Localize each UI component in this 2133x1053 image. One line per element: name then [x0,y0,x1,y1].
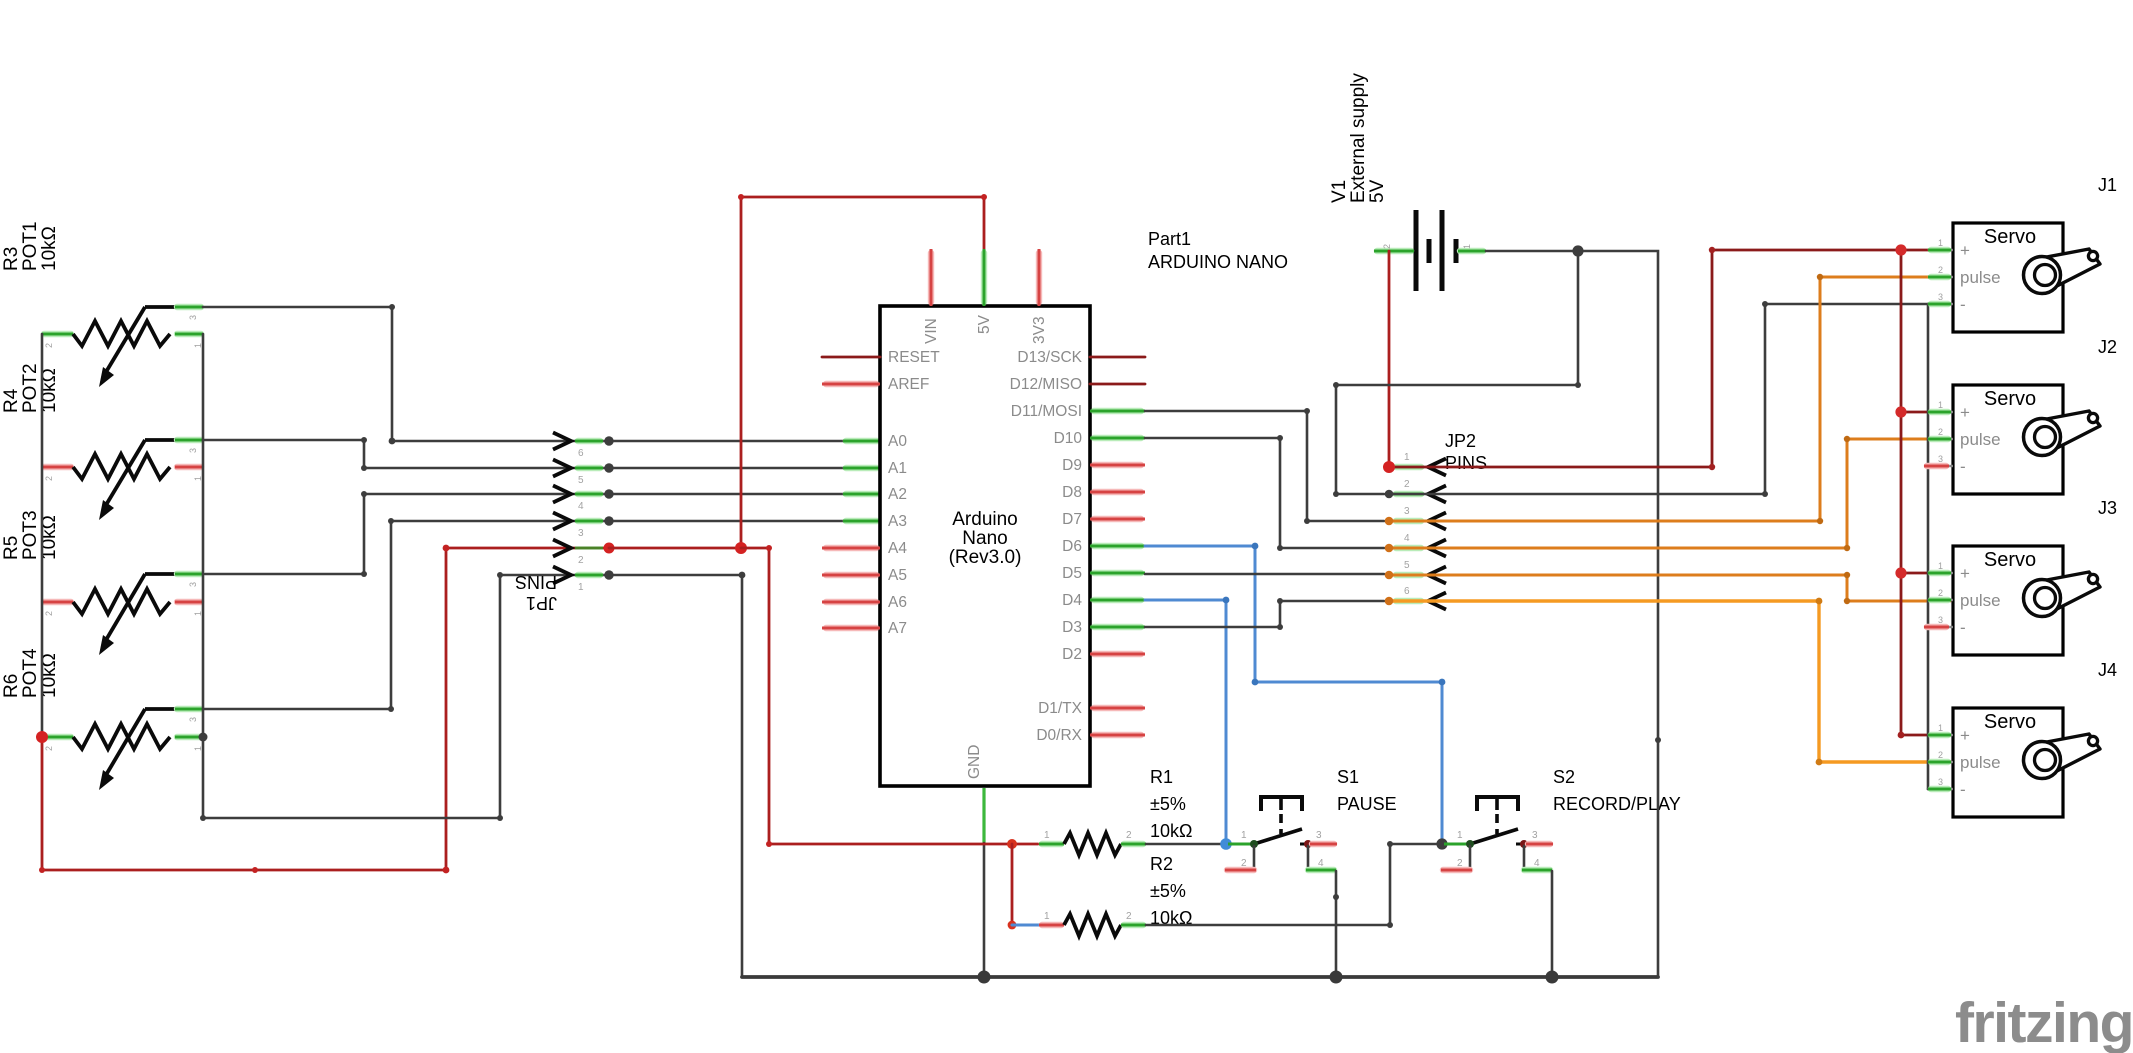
svg-text:5V: 5V [976,314,993,334]
junction servo + J1 [1895,244,1906,255]
label Part1 ARDUINO NANO [1148,229,1288,272]
svg-text:+: + [1960,564,1970,583]
label S1 PAUSE [1337,767,1397,814]
svg-text:1: 1 [1404,452,1410,463]
wire pot1 pin1 / pot4 pin1 to JP1 pin1 and ground bus [200,334,745,977]
svg-text:2: 2 [1938,750,1943,760]
Arduino pin A1 [888,460,907,477]
svg-text:PAUSE: PAUSE [1337,794,1397,814]
svg-text:R1: R1 [1150,767,1173,787]
svg-text:J2: J2 [2098,337,2117,357]
wire pot1 pin3 to JP1 pin6 (A0 net) [203,304,608,444]
junction pot4 pin2 (red dot) [36,731,48,743]
svg-text:1: 1 [1044,830,1050,841]
svg-text:D5: D5 [1062,565,1082,582]
svg-text:3: 3 [188,315,198,320]
svg-text:fritzing: fritzing [1955,991,2133,1053]
svg-text:2: 2 [1241,858,1247,869]
svg-text:2: 2 [578,555,584,566]
svg-text:J1: J1 [2098,175,2117,195]
svg-text:3: 3 [188,717,198,722]
svg-text:2: 2 [1938,427,1943,437]
Arduino pin D8 [1062,484,1145,501]
Arduino pin 3V3 [1031,249,1048,344]
junction JP2 pin1 (red) [1383,461,1395,473]
junction S2 pin4 on bus [1546,971,1559,984]
Arduino pin A5 [822,567,907,584]
svg-text:D1/TX: D1/TX [1038,700,1083,717]
junction servo + J2 [1895,406,1906,417]
svg-text:2: 2 [1126,911,1132,922]
label R5 POT3 10k [1,510,60,560]
svg-text:+: + [1960,726,1970,745]
wire dark red servo plus bus [1898,250,1950,738]
svg-text:+: + [1960,403,1970,422]
svg-text:-: - [1960,295,1966,314]
svg-text:A2: A2 [888,486,907,503]
junction at S2 pin1 [1436,838,1447,849]
svg-text:POT3: POT3 [20,510,41,560]
svg-text:2: 2 [44,476,54,481]
svg-text:S1: S1 [1337,767,1359,787]
JP2 pin 3 [1396,518,1421,524]
JP2 pin 4 [1396,545,1421,551]
svg-text:3: 3 [188,448,198,453]
wire red 5V to R1 pin1 [741,545,1038,847]
Arduino pin A2 [888,486,907,503]
potentiometer R5 (POT3) [42,574,203,655]
wire dark red JP2 pin1 to servo + bus [1393,247,1901,470]
junction red above R1 [1007,839,1017,849]
servo J4 [1928,708,2100,817]
svg-text:Part1: Part1 [1148,229,1191,249]
JP1 pin 3 [578,518,600,524]
svg-text:A5: A5 [888,567,907,584]
svg-text:D0/RX: D0/RX [1036,727,1082,744]
svg-text:J4: J4 [2098,660,2117,680]
junction GND on bus [978,971,991,984]
svg-text:-: - [1960,780,1966,799]
label R4 POT2 10k [1,363,60,413]
svg-text:D8: D8 [1062,484,1082,501]
wire R2 pin2 to S2 pin1 [1146,841,1442,928]
svg-text:1: 1 [1462,244,1472,249]
Arduino pin AREF [822,376,929,393]
wire D10 to JP2 pin4 [1145,435,1384,551]
svg-text:D12/MISO: D12/MISO [1010,376,1082,393]
svg-text:3: 3 [1316,830,1322,841]
svg-text:VIN: VIN [923,318,940,344]
Arduino pin D4 [1062,592,1145,609]
svg-text:1: 1 [578,582,584,593]
Arduino pin VIN [923,249,940,344]
wire JP1 to Arduino A-pin row y=494 [609,493,880,496]
svg-text:3: 3 [578,528,584,539]
wire negative node to JP2 pin2 [1333,251,1581,497]
svg-text:1: 1 [1938,400,1943,410]
junction battery negative [1572,245,1583,256]
label JP2 PINS [1445,431,1487,473]
svg-text:R4: R4 [1,388,22,413]
wire JP2 pin2 to servo minus bus [1393,301,1928,497]
svg-text:Servo: Servo [1984,549,2036,571]
wire D11/MOSI to JP2 pin3 [1145,408,1384,524]
svg-text:4: 4 [1318,858,1324,869]
svg-text:2: 2 [44,611,54,616]
svg-text:3: 3 [1938,777,1943,787]
svg-text:D9: D9 [1062,457,1082,474]
svg-text:1: 1 [1241,830,1247,841]
svg-text:-: - [1960,457,1966,476]
svg-text:6: 6 [1404,586,1410,597]
svg-text:ARDUINO NANO: ARDUINO NANO [1148,252,1288,272]
svg-text:-: - [1960,618,1966,637]
Arduino pin A3 [888,513,907,530]
svg-text:2: 2 [1382,244,1392,249]
resistor R2 [1039,911,1146,936]
potentiometer R4 (POT2) [42,440,203,520]
servo J3 [1924,546,2100,655]
svg-text:D6: D6 [1062,538,1082,555]
svg-text:PINS: PINS [1445,453,1487,473]
svg-text:R5: R5 [1,536,22,560]
label JP1 PINS (rotated 180) [515,572,557,613]
wire orange JP2 pin3 to servo J1 pulse [1393,274,1950,524]
svg-text:2: 2 [1404,479,1410,490]
servo J2 [1924,385,2100,494]
svg-text:pulse: pulse [1960,591,2001,610]
svg-text:5: 5 [1404,560,1410,571]
wire JP1 to Arduino A-pin row y=441 [609,440,880,443]
svg-text:JP1: JP1 [526,593,557,613]
node JP2 pin at y=521 [1385,517,1394,526]
wire blue stub to R2 pin1 [1012,924,1040,927]
JP1 pin 4 [578,491,600,497]
JP1 pin 1 [578,572,600,578]
Arduino pin 5V [976,249,993,334]
svg-text:A0: A0 [888,433,907,450]
svg-text:1: 1 [1938,561,1943,571]
svg-text:+: + [1960,241,1970,260]
potentiometer R6 (POT4) [42,709,203,790]
wire pot4 pin3 to JP1 pin3 (A3 net) [204,518,608,712]
Arduino pin D7 [1062,511,1145,528]
wire pot2 pin3 to JP1 pin5 (A1 net) [203,437,608,471]
svg-text:POT1: POT1 [20,221,41,271]
svg-text:POT4: POT4 [20,648,41,698]
Arduino pin D2 [1062,646,1145,663]
svg-text:2: 2 [1126,830,1132,841]
svg-text:1: 1 [193,343,203,348]
svg-text:D7: D7 [1062,511,1082,528]
svg-text:RECORD/PLAY: RECORD/PLAY [1553,794,1681,814]
svg-text:A7: A7 [888,620,907,637]
Arduino pin D5 [1062,565,1145,582]
svg-text:4: 4 [1534,858,1540,869]
svg-text:S2: S2 [1553,767,1575,787]
connector JP2 (PINS) [1393,452,1446,610]
label R1 values [1150,767,1192,841]
Arduino pin D11/MOSI [1011,403,1145,420]
Arduino pin D13/SCK [1017,349,1145,366]
svg-text:6: 6 [578,448,584,459]
label R6 POT4 10k [1,648,60,698]
svg-text:5: 5 [578,475,584,486]
battery V1 External supply 5V [1374,210,1486,291]
svg-text:D11/MOSI: D11/MOSI [1011,403,1082,420]
svg-text:1: 1 [193,476,203,481]
svg-text:RESET: RESET [888,349,940,366]
svg-text:D3: D3 [1062,619,1082,636]
svg-text:2: 2 [1938,265,1943,275]
svg-text:3: 3 [1404,506,1410,517]
svg-text:2: 2 [1938,588,1943,598]
junction pot4 pin1 [199,733,208,742]
JP2 pin 6 [1396,598,1421,604]
junction servo + J3 [1895,567,1906,578]
label V1 External supply 5V [1329,73,1388,203]
wire red JP1 pin2 to junction under 5V rail [609,547,741,550]
Arduino pin D0/RX [1036,727,1145,744]
IC Part1 Arduino Nano box [880,306,1090,786]
svg-text:AREF: AREF [888,376,929,393]
svg-text:3: 3 [1938,454,1943,464]
resistor R1 [1039,830,1146,855]
svg-text:1: 1 [1938,723,1943,733]
svg-text:3V3: 3V3 [1031,316,1048,344]
svg-text:(Rev3.0): (Rev3.0) [949,547,1022,568]
wire red pot4 pin2 to JP1 pin2 [39,545,608,874]
svg-text:Servo: Servo [1984,388,2036,410]
JP2 pin 2 [1396,491,1421,497]
svg-text:A6: A6 [888,594,907,611]
wire red junction down to R2 row [1008,844,1017,929]
svg-text:R3: R3 [1,247,22,271]
svg-text:±5%: ±5% [1150,794,1186,814]
svg-text:Nano: Nano [962,528,1007,549]
svg-text:pulse: pulse [1960,268,2001,287]
Arduino pin A4 [822,540,907,557]
junction S1 pin4 on bus [1330,971,1343,984]
servo J1 [1928,223,2100,332]
node JP2 pin at y=601 [1385,597,1394,606]
switch S1 (pushbutton) [1225,797,1337,870]
wire orange JP2 pin5 to servo J3 pulse [1393,572,1950,604]
node JP2 pin at y=575 [1385,571,1394,580]
node JP2 pin2 [1385,490,1394,499]
JP1 pin 6 [578,438,600,444]
JP2 pin 5 [1396,572,1421,578]
svg-text:1: 1 [1457,830,1463,841]
svg-text:D4: D4 [1062,592,1082,609]
svg-text:R2: R2 [1150,854,1173,874]
svg-text:JP2: JP2 [1445,431,1476,451]
wire battery pin1 to negative node [1486,250,1578,253]
Arduino pin GND [966,745,983,779]
svg-text:D2: D2 [1062,646,1082,663]
svg-text:3: 3 [188,582,198,587]
svg-text:GND: GND [966,745,983,779]
wire D5 to JP2 pin5 [1145,573,1384,576]
JP1 pin 5 [578,465,600,471]
wire blue D4 to S1 pin1 [1145,597,1229,844]
svg-text:POT2: POT2 [20,363,41,413]
Arduino pin A0 [888,433,907,450]
svg-text:1: 1 [1044,911,1050,922]
svg-text:A3: A3 [888,513,907,530]
label R2 values [1150,854,1192,928]
svg-text:10kΩ: 10kΩ [1150,821,1192,841]
wire JP1 to Arduino A-pin row y=521 [609,520,880,523]
wire orange JP2 pin4 to servo J2 pulse [1393,436,1950,551]
Arduino pin A7 [822,620,907,637]
wire ground bottom bus [742,975,1658,979]
wire blue D6 to S2 pin1 [1145,543,1445,844]
svg-text:Servo: Servo [1984,226,2036,248]
svg-text:2: 2 [1457,858,1463,869]
svg-text:A4: A4 [888,540,907,557]
svg-text:J3: J3 [2098,498,2117,518]
svg-text:5V: 5V [1367,179,1388,203]
svg-text:pulse: pulse [1960,430,2001,449]
Arduino pin D1/TX [1038,700,1145,717]
node JP2 pin at y=548 [1385,544,1394,553]
wire D3 to JP2 pin6 [1145,598,1384,630]
svg-text:4: 4 [1404,533,1410,544]
JP2 pin 1 [1396,464,1421,470]
wire red 5V rail from Arduino 5V to JP1 pin2 riser [738,194,987,548]
svg-text:A1: A1 [888,460,907,477]
wire orange JP2 pin6 to servo J4 pulse [1393,598,1950,766]
wire green GND to bottom bus [982,788,985,977]
wire red battery pin2 down to JP2 pin1 [1388,251,1391,467]
svg-text:pulse: pulse [1960,753,2001,772]
svg-text:2: 2 [44,343,54,348]
svg-text:1: 1 [1938,238,1943,248]
svg-text:D10: D10 [1054,430,1083,447]
connector JP1 (PINS) [553,433,615,594]
svg-text:3: 3 [1938,615,1943,625]
wire servo minus bus [1928,304,1950,789]
svg-text:D13/SCK: D13/SCK [1017,349,1082,366]
svg-text:4: 4 [578,501,584,512]
svg-text:V1: V1 [1329,180,1350,203]
potentiometer R3 (POT1) [42,307,203,387]
wire pot3 pin3 to JP1 pin4 (A2 net) [205,491,608,577]
Arduino pin A6 [822,594,907,611]
Arduino pin D9 [1062,457,1145,474]
Arduino pin RESET [822,349,940,366]
svg-text:PINS: PINS [515,572,557,592]
fritzing watermark [1955,991,2133,1053]
junction JP1 pin2 / 5V rail [735,542,747,554]
switch S2 (pushbutton) [1441,797,1553,870]
svg-text:2: 2 [44,746,54,751]
Arduino pin D12/MISO [1010,376,1145,393]
Arduino pin D3 [1062,619,1145,636]
svg-text:Arduino: Arduino [952,509,1018,530]
svg-text:1: 1 [193,746,203,751]
svg-text:External supply: External supply [1348,73,1369,203]
Arduino pin D10 [1054,430,1145,447]
svg-text:1: 1 [193,611,203,616]
label R3 POT1 10k [1,221,60,271]
wire S1 pin4 to ground bus [1333,871,1339,977]
wire S2 pin4 to ground bus [1551,871,1554,977]
JP1 pin 2 [575,547,603,550]
wire pot pin2 chain bus [41,334,44,737]
svg-text:10kΩ: 10kΩ [39,226,60,271]
svg-text:3: 3 [1532,830,1538,841]
wire negative node to ground bus [1578,251,1661,977]
label S2 RECORD/PLAY [1553,767,1681,814]
svg-text:±5%: ±5% [1150,881,1186,901]
wire JP1 to Arduino A-pin row y=468 [609,467,880,470]
Arduino pin D6 [1062,538,1145,555]
wire R1 pin2 to S1 pin1 [1146,843,1227,846]
svg-text:R6: R6 [1,674,22,698]
junction blue at S1 pin1 [1220,838,1232,850]
svg-text:3: 3 [1938,292,1943,302]
svg-text:Servo: Servo [1984,711,2036,733]
